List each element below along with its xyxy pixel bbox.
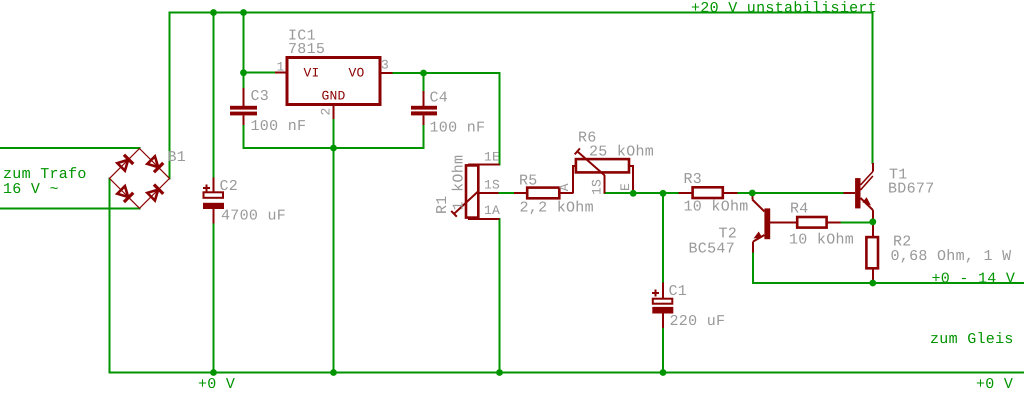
wire C1 to 0V	[662, 328, 664, 373]
svg-text:R1: R1	[434, 195, 451, 214]
wire R3 to T1 base	[738, 192, 844, 194]
diode D1 top-left	[116, 155, 133, 172]
svg-text:1E: 1E	[484, 150, 500, 165]
wire R6 wiper to R3	[605, 192, 679, 194]
svg-text:1A: 1A	[484, 203, 500, 218]
potentiometer R6	[573, 148, 633, 193]
svg-text:VI: VI	[304, 66, 320, 81]
wire trafo AC top	[0, 147, 140, 149]
svg-text:3: 3	[381, 58, 389, 73]
wire top +20V rail	[170, 13, 873, 164]
wire rail to C3 node	[243, 13, 245, 73]
node R3-T2	[749, 190, 756, 197]
wire bridge minus down to 0V	[109, 178, 111, 372]
pin 3 VO	[380, 72, 393, 74]
svg-text:+0 V: +0 V	[976, 376, 1013, 393]
svg-text:0,68 Ohm, 1 W: 0,68 Ohm, 1 W	[891, 248, 1012, 265]
svg-text:220 uF: 220 uF	[670, 313, 726, 330]
wire bottom 0V rail	[110, 372, 1024, 374]
node C1 top	[660, 190, 667, 197]
svg-text:BD677: BD677	[888, 180, 935, 197]
wire R1 wiper to R5	[499, 192, 515, 194]
node T1 emitter	[869, 218, 876, 225]
svg-text:10 kOhm: 10 kOhm	[789, 231, 854, 248]
transistor T2 BC547	[752, 193, 783, 252]
wire C3 node to IC pin1	[244, 72, 276, 74]
svg-text:+0 - 14 V: +0 - 14 V	[932, 271, 1016, 288]
op-amp regulator IC1 7815	[275, 58, 393, 120]
svg-text:+0 V: +0 V	[198, 376, 235, 393]
svg-text:1S: 1S	[590, 179, 605, 195]
svg-text:C2: C2	[220, 178, 239, 195]
wire IC pin2 down to 0V	[333, 119, 335, 373]
svg-text:1 kOhm: 1 kOhm	[451, 155, 468, 211]
svg-text:GND: GND	[322, 89, 346, 104]
svg-text:R3: R3	[684, 171, 703, 188]
node 0V C1	[660, 369, 667, 376]
diode D4 bottom-right	[146, 185, 163, 202]
resistor R3	[679, 187, 738, 198]
svg-text:VO: VO	[349, 66, 365, 81]
svg-text:10 kOhm: 10 kOhm	[684, 199, 749, 216]
wire IC pin3 to C4 node and right	[393, 72, 500, 74]
node rail-C3	[240, 9, 247, 16]
wire C2 upper	[213, 13, 215, 178]
svg-text:7815: 7815	[288, 41, 325, 58]
node C3-pin1	[240, 69, 247, 76]
node R6 E	[630, 190, 637, 197]
svg-text:100 nF: 100 nF	[251, 118, 307, 135]
wire bridge plus to rail	[169, 13, 171, 179]
node R2 bottom	[869, 280, 876, 287]
wire node to C1	[662, 193, 664, 283]
svg-text:2: 2	[319, 107, 334, 115]
wire R4 to emitter node	[841, 221, 873, 223]
wire T2 emitter down and +0-14V rail	[753, 252, 1024, 283]
svg-text:BC547: BC547	[689, 240, 736, 257]
svg-text:R4: R4	[790, 200, 809, 217]
svg-text:B1: B1	[168, 149, 187, 166]
svg-text:2,2 kOhm: 2,2 kOhm	[520, 199, 594, 216]
svg-text:1: 1	[277, 60, 285, 75]
capacitor C3	[230, 88, 257, 125]
wire C3 lower	[243, 125, 245, 149]
node 0V C2	[210, 369, 217, 376]
svg-text:C1: C1	[669, 283, 688, 300]
svg-text:16 V ~: 16 V ~	[3, 181, 59, 198]
wire gnd horizontal C3-C4	[244, 147, 424, 149]
node 0V R1	[496, 369, 503, 376]
svg-text:C4: C4	[430, 90, 449, 107]
svg-text:+20 V unstabilisiert: +20 V unstabilisiert	[691, 0, 877, 17]
svg-text:1S: 1S	[484, 177, 500, 192]
transistor T1 BD677	[844, 163, 873, 222]
resistor R2	[866, 222, 878, 283]
wire R1 1A down to 0V	[499, 219, 501, 373]
node rail-C2	[210, 9, 217, 16]
svg-text:R5: R5	[519, 172, 538, 189]
wire C3 upper	[243, 73, 245, 89]
capacitor C2	[203, 177, 224, 223]
wire trafo AC bottom	[0, 207, 140, 209]
wire C4 upper	[423, 73, 425, 91]
node pin3-C4	[420, 70, 427, 77]
svg-text:100 nF: 100 nF	[430, 119, 486, 136]
pin 1 VI	[275, 72, 287, 74]
diode D2 top-right	[146, 155, 163, 172]
svg-text:4700 uF: 4700 uF	[221, 208, 286, 225]
potentiometer R1	[451, 165, 499, 220]
resistor R5	[514, 188, 573, 199]
wire C4 lower	[423, 125, 425, 148]
wire C2 lower	[213, 224, 215, 373]
wire down to R1 1E	[499, 73, 501, 165]
node gnd-pin2	[330, 145, 337, 152]
bridge rectifier B1	[110, 149, 170, 209]
svg-text:zum Gleis: zum Gleis	[930, 331, 1014, 348]
svg-text:C3: C3	[251, 88, 270, 105]
diode D3 bottom-left	[116, 185, 133, 202]
node 0V pin2	[330, 369, 337, 376]
capacitor C4	[411, 91, 437, 125]
svg-text:A: A	[557, 183, 572, 191]
capacitor C1	[652, 283, 673, 329]
resistor R4	[768, 217, 840, 228]
svg-text:25 kOhm: 25 kOhm	[589, 144, 654, 161]
svg-text:E: E	[618, 183, 633, 191]
pin 2 GND	[333, 105, 335, 120]
